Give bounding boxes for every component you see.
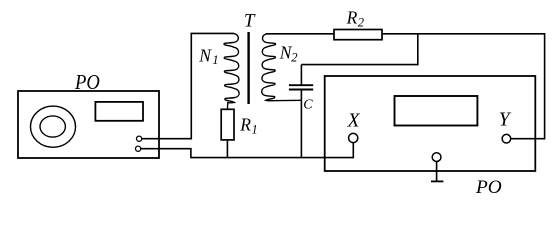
- svg-text:C: C: [303, 98, 313, 113]
- svg-text:PO: PO: [475, 177, 502, 198]
- svg-text:1: 1: [252, 122, 258, 136]
- svg-text:1: 1: [212, 53, 218, 67]
- svg-text:T: T: [244, 11, 256, 32]
- svg-text:PO: PO: [74, 70, 100, 94]
- svg-text:X: X: [347, 110, 361, 131]
- svg-text:N: N: [198, 46, 212, 66]
- svg-text:2: 2: [358, 15, 364, 29]
- svg-text:2: 2: [291, 51, 297, 65]
- svg-text:R: R: [239, 114, 251, 134]
- svg-text:R: R: [346, 7, 358, 27]
- svg-text:Y: Y: [499, 110, 512, 131]
